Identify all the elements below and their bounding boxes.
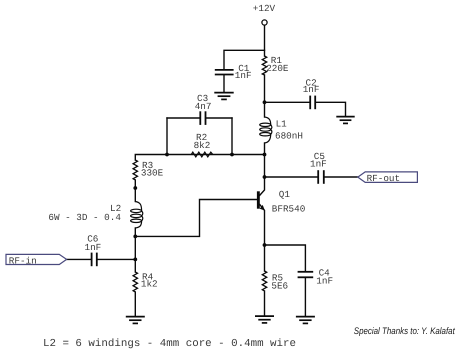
svg-text:4n7: 4n7 <box>195 101 212 112</box>
svg-text:1nF: 1nF <box>85 242 102 253</box>
svg-text:1nF: 1nF <box>235 70 252 81</box>
svg-text:RF-in: RF-in <box>9 255 37 266</box>
svg-text:1nF: 1nF <box>310 159 327 170</box>
svg-text:L1: L1 <box>276 119 288 130</box>
svg-text:Special Thanks to: Y. Kalafat: Special Thanks to: Y. Kalafat <box>354 326 455 337</box>
svg-text:6W - 3D - 0.4: 6W - 3D - 0.4 <box>48 212 121 223</box>
svg-text:680nH: 680nH <box>275 131 303 142</box>
svg-text:RF-out: RF-out <box>367 173 400 184</box>
svg-text:1nF: 1nF <box>316 276 333 287</box>
svg-text:+12V: +12V <box>253 3 276 14</box>
svg-text:220E: 220E <box>266 63 289 74</box>
svg-text:BFR540: BFR540 <box>272 204 305 215</box>
svg-text:1k2: 1k2 <box>141 278 158 289</box>
svg-text:8k2: 8k2 <box>194 140 211 151</box>
svg-text:5E6: 5E6 <box>271 280 288 291</box>
svg-text:Q1: Q1 <box>279 189 291 200</box>
svg-text:L2 = 6 windings - 4mm core - 0: L2 = 6 windings - 4mm core - 0.4mm wire <box>43 338 296 350</box>
svg-text:330E: 330E <box>141 168 164 179</box>
svg-text:1nF: 1nF <box>303 84 320 95</box>
